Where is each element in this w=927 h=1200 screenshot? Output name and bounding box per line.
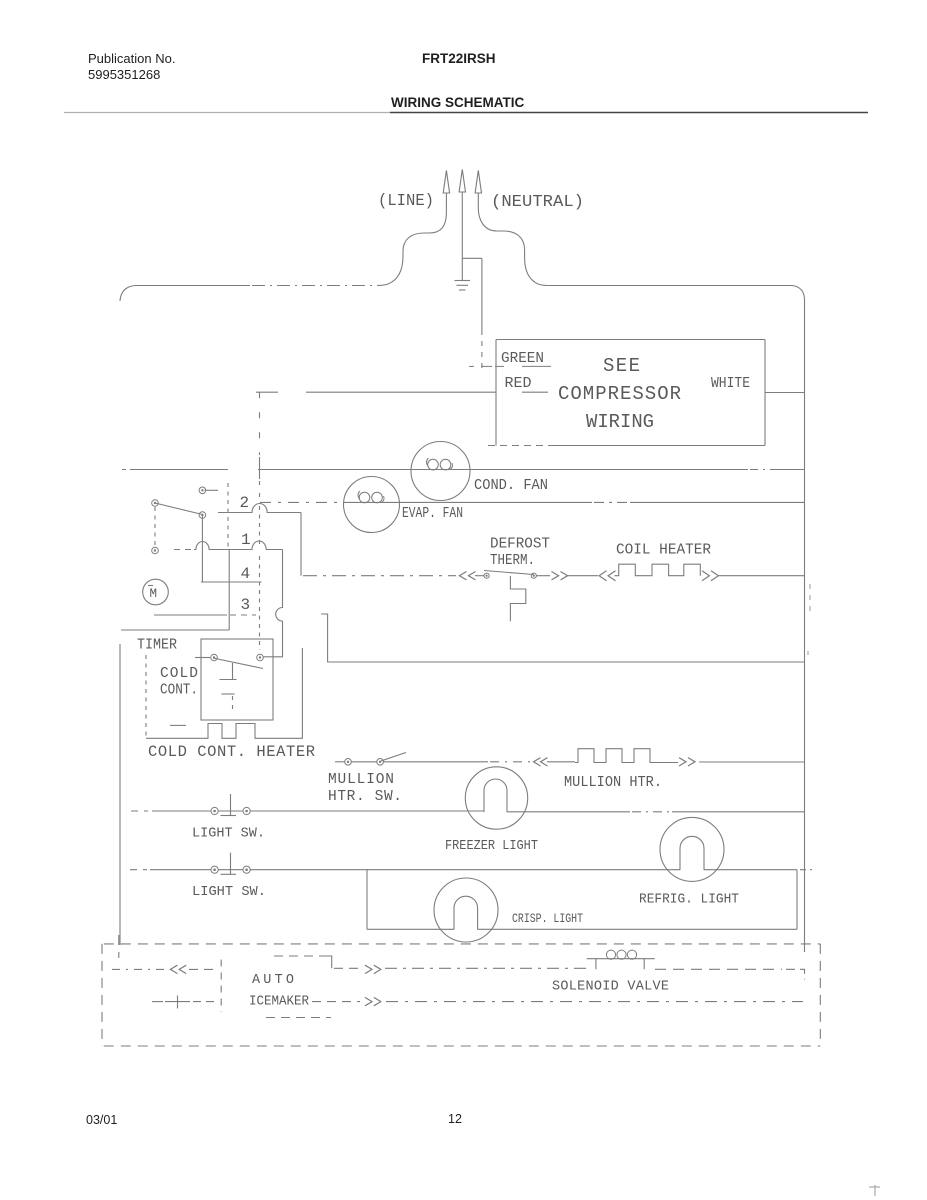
- svg-text:CRISP. LIGHT: CRISP. LIGHT: [512, 911, 583, 926]
- svg-text:ICEMAKER: ICEMAKER: [249, 995, 309, 1010]
- svg-text:GREEN: GREEN: [501, 351, 544, 367]
- svg-text:MULLION: MULLION: [328, 772, 394, 788]
- svg-text:CONT.: CONT.: [160, 683, 198, 699]
- svg-text:3: 3: [241, 596, 251, 614]
- svg-text:(LINE): (LINE): [378, 192, 434, 211]
- svg-text:03/01: 03/01: [86, 1113, 117, 1127]
- svg-text:SOLENOID VALVE: SOLENOID VALVE: [552, 980, 669, 995]
- svg-text:(NEUTRAL): (NEUTRAL): [491, 193, 584, 212]
- svg-text:5995351268: 5995351268: [88, 67, 160, 82]
- svg-text:2: 2: [240, 494, 250, 512]
- svg-text:M: M: [150, 587, 158, 601]
- svg-text:REFRIG. LIGHT: REFRIG. LIGHT: [639, 893, 739, 908]
- svg-text:EVAP. FAN: EVAP. FAN: [402, 506, 463, 522]
- svg-text:WIRING: WIRING: [586, 411, 654, 433]
- svg-text:HTR. SW.: HTR. SW.: [328, 789, 402, 805]
- svg-text:WIRING SCHEMATIC: WIRING SCHEMATIC: [391, 95, 524, 110]
- svg-text:COND. FAN: COND. FAN: [474, 478, 548, 494]
- svg-text:TIMER: TIMER: [137, 638, 177, 654]
- svg-text:4: 4: [241, 565, 251, 583]
- svg-text:THERM.: THERM.: [490, 553, 535, 569]
- svg-text:12: 12: [448, 1112, 462, 1126]
- svg-text:DEFROST: DEFROST: [490, 537, 550, 553]
- svg-text:COMPRESSOR: COMPRESSOR: [558, 383, 681, 405]
- svg-text:COLD: COLD: [160, 666, 198, 682]
- svg-text:Publication No.: Publication No.: [88, 51, 175, 66]
- svg-text:RED: RED: [505, 376, 532, 392]
- svg-text:MULLION HTR.: MULLION HTR.: [564, 775, 662, 791]
- svg-text:LIGHT SW.: LIGHT SW.: [192, 827, 265, 842]
- svg-text:FRT22IRSH: FRT22IRSH: [422, 51, 496, 66]
- svg-text:1: 1: [241, 531, 251, 549]
- svg-text:FREEZER LIGHT: FREEZER LIGHT: [445, 839, 538, 854]
- svg-text:WHITE: WHITE: [711, 376, 750, 392]
- svg-text:COIL HEATER: COIL HEATER: [616, 543, 711, 559]
- svg-text:SEE: SEE: [603, 355, 640, 377]
- svg-text:LIGHT SW.: LIGHT SW.: [192, 885, 266, 900]
- svg-text:COLD CONT. HEATER: COLD CONT. HEATER: [148, 743, 315, 761]
